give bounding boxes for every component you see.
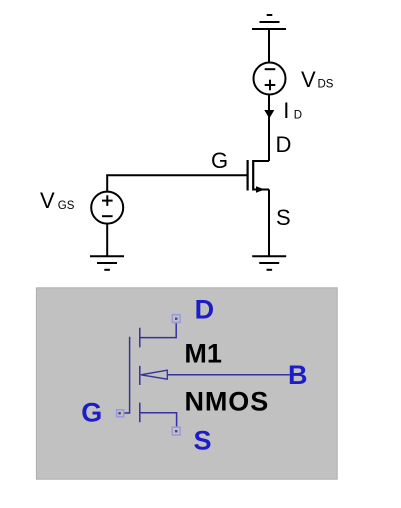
voltage source VGS xyxy=(91,192,123,224)
svg-text:M1: M1 xyxy=(184,339,222,369)
wire VGS bottom xyxy=(106,224,108,256)
wire top ground to VDS xyxy=(268,29,270,63)
transistor Q1 NMOS xyxy=(248,160,254,191)
ground GND right xyxy=(252,256,286,270)
wire source lead xyxy=(140,413,177,427)
voltage source VDS xyxy=(254,63,286,95)
svg-text:D: D xyxy=(195,295,215,325)
pin G square xyxy=(117,410,124,417)
wire drain lead xyxy=(140,323,176,338)
pin D square xyxy=(172,315,180,323)
ground GND top xyxy=(252,15,286,29)
transistor M1 drain contact stub xyxy=(139,328,141,348)
wire VDS to drain node xyxy=(268,95,270,162)
pin S square xyxy=(172,427,180,435)
svg-text:S: S xyxy=(276,205,291,230)
wire VGS top xyxy=(106,175,108,191)
label VGS xyxy=(40,188,75,213)
svg-text:V: V xyxy=(40,188,55,213)
svg-text:D: D xyxy=(294,110,302,122)
transistor M1 source contact stub xyxy=(139,403,141,423)
wire bulk lead xyxy=(167,374,289,376)
svg-text:GS: GS xyxy=(58,200,75,212)
transistor M1 bulk arrow xyxy=(141,370,168,379)
transistor M1 gate line xyxy=(124,337,130,413)
label VDS xyxy=(301,67,334,92)
wire source to ground xyxy=(268,190,270,257)
svg-text:G: G xyxy=(81,398,102,428)
svg-text:I: I xyxy=(283,98,289,123)
svg-text:D: D xyxy=(276,132,292,157)
svg-text:NMOS: NMOS xyxy=(185,387,270,417)
schematic panel background xyxy=(36,288,337,479)
current arrow ID xyxy=(264,110,274,119)
svg-text:DS: DS xyxy=(318,79,334,91)
svg-text:G: G xyxy=(211,148,228,173)
svg-text:S: S xyxy=(194,426,212,456)
wire gate xyxy=(106,174,246,176)
svg-text:B: B xyxy=(288,360,308,390)
transistor M1 bulk contact stub xyxy=(139,366,141,385)
ground GND left xyxy=(90,256,124,270)
svg-text:V: V xyxy=(301,67,316,92)
transistor source arrow xyxy=(256,186,265,192)
label ID xyxy=(283,98,302,123)
